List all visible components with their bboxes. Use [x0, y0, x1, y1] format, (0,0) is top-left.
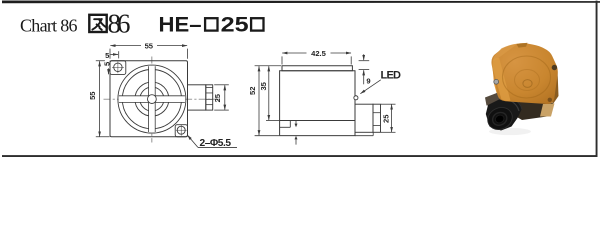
svg-text:9: 9 [366, 77, 370, 86]
svg-text:Chart 86: Chart 86 [20, 16, 78, 36]
svg-text:52: 52 [248, 87, 257, 95]
svg-text:2–Φ5.5: 2–Φ5.5 [200, 138, 232, 149]
svg-text:86: 86 [108, 9, 131, 39]
svg-text:55: 55 [145, 41, 154, 50]
svg-text:HE–: HE– [159, 13, 202, 37]
svg-text:35: 35 [259, 81, 268, 90]
svg-text:42.5: 42.5 [311, 49, 327, 58]
svg-text:25: 25 [381, 114, 390, 123]
svg-text:25: 25 [221, 13, 249, 37]
svg-text:55: 55 [88, 91, 97, 100]
svg-text:5: 5 [105, 51, 110, 60]
svg-text:25: 25 [213, 93, 222, 102]
svg-text:LED: LED [381, 70, 402, 82]
